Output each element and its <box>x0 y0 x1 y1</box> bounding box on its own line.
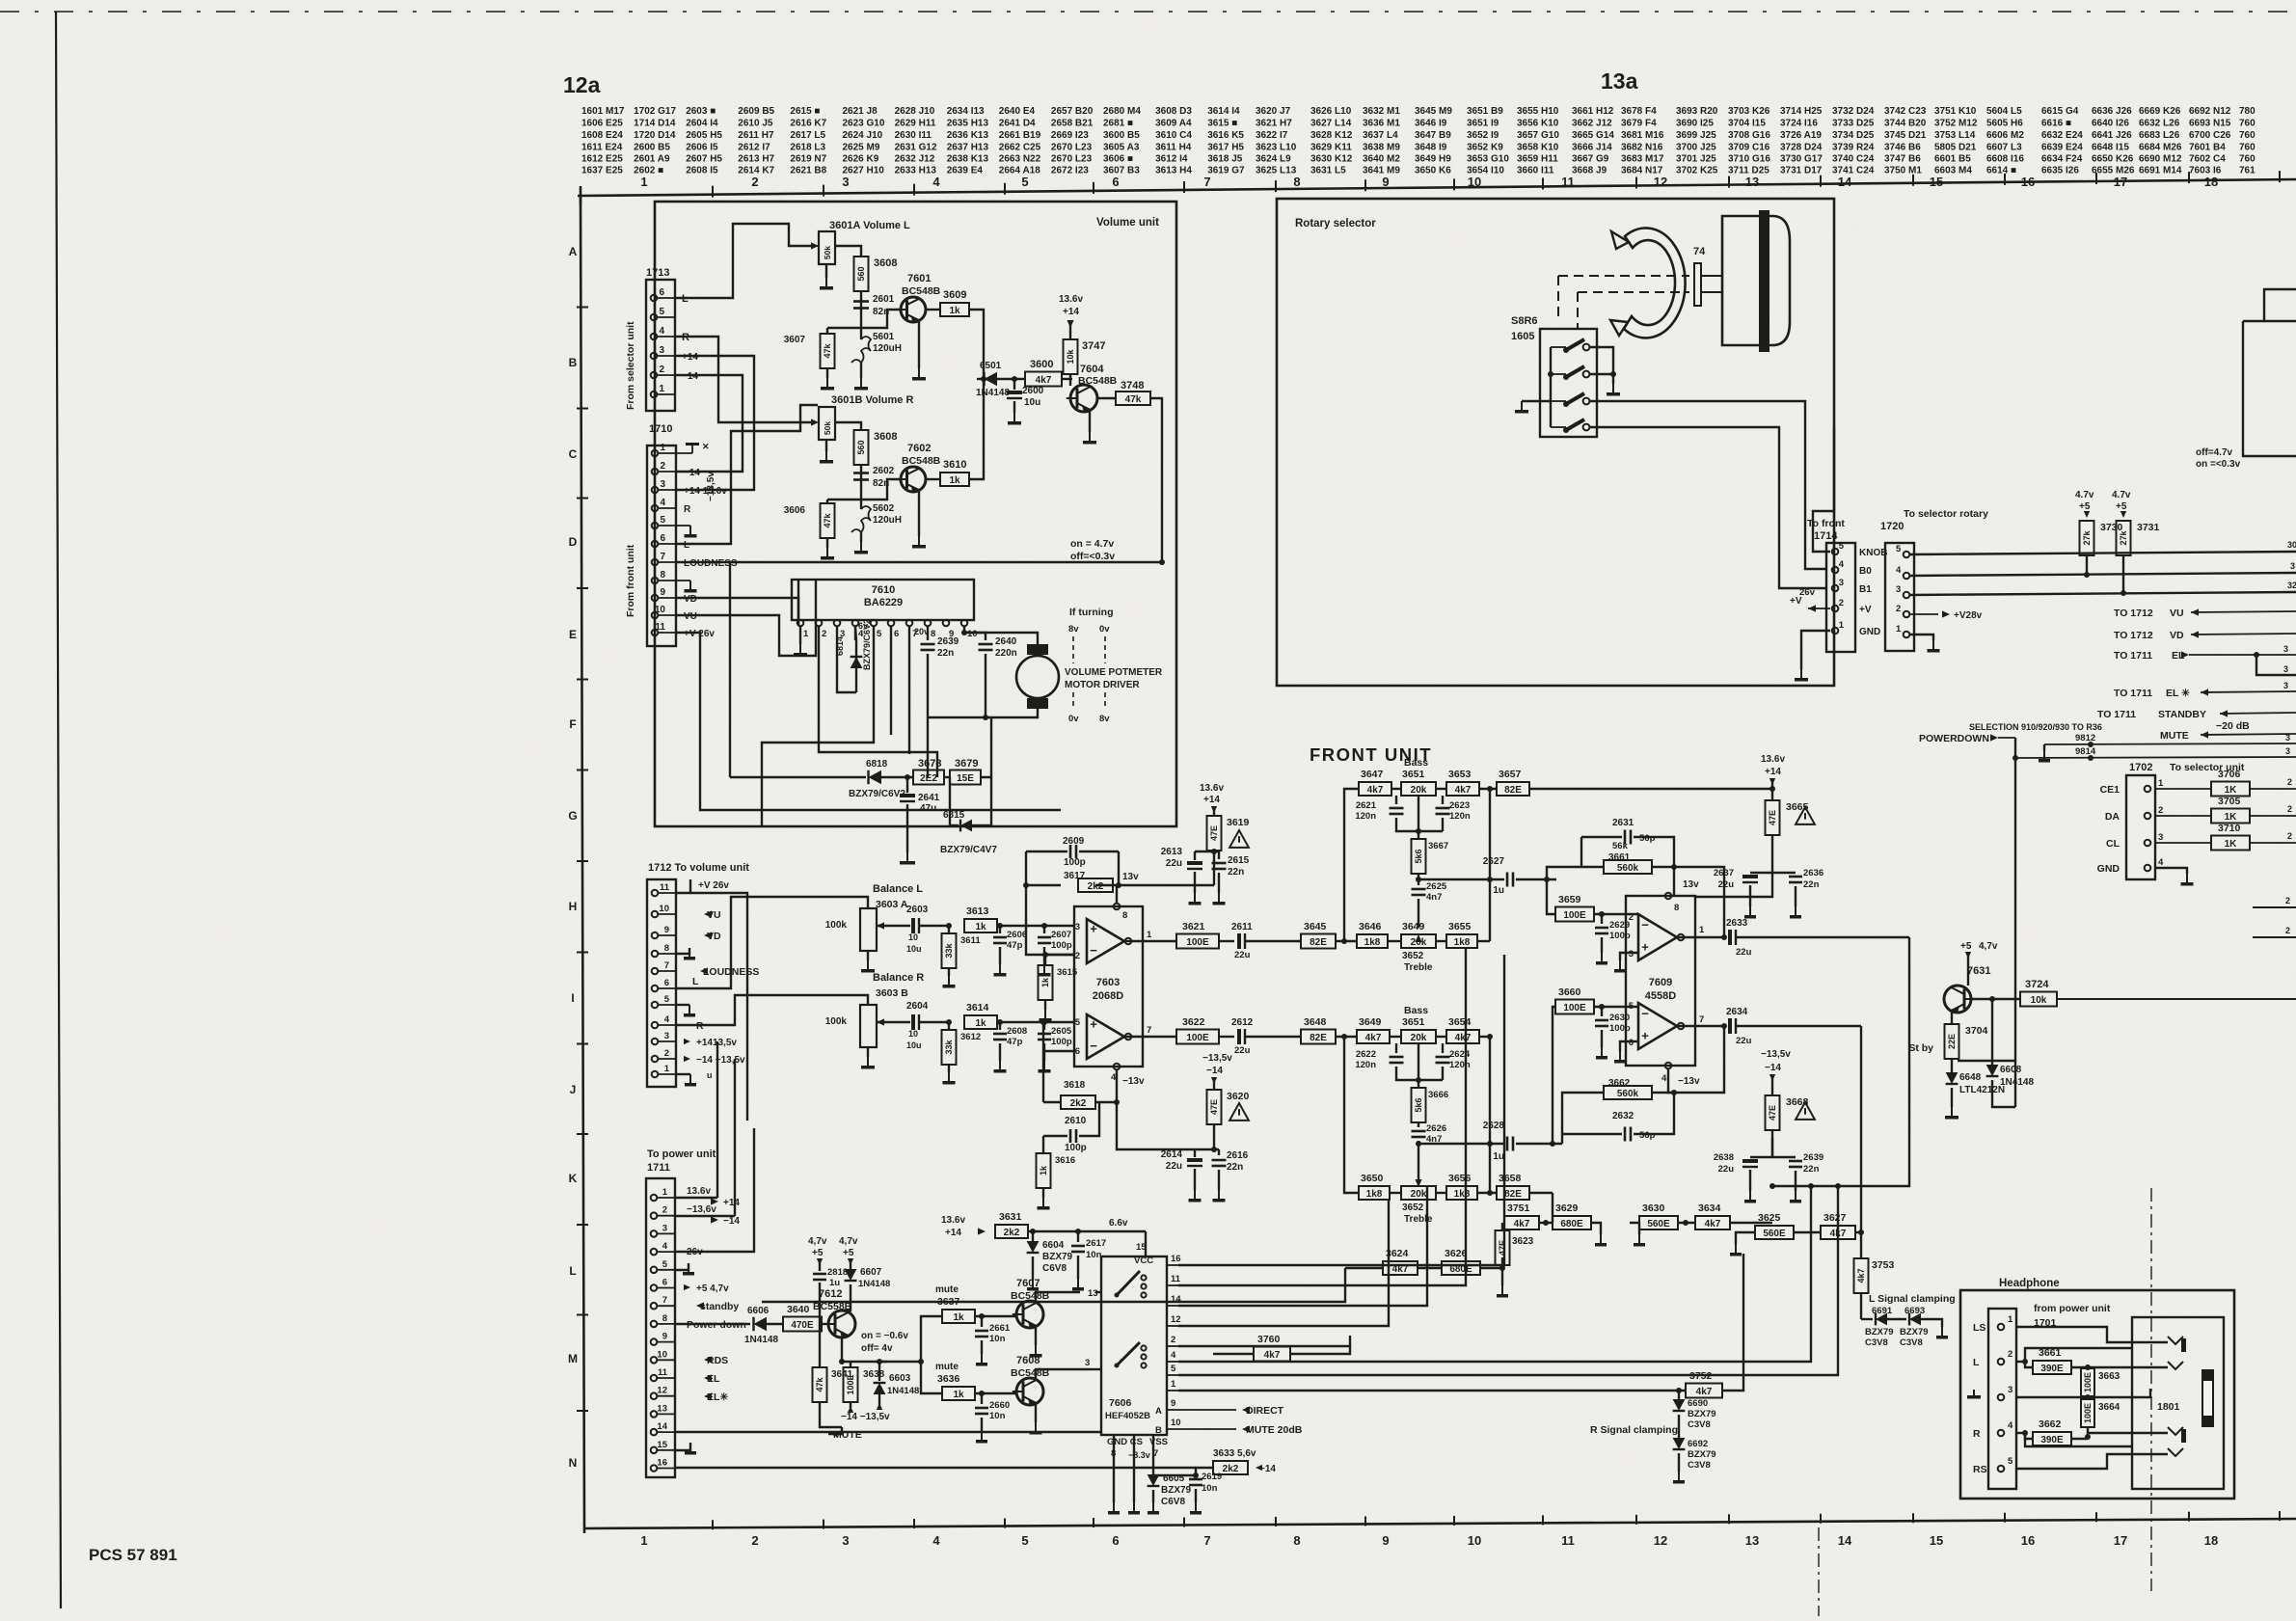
svg-text:2: 2 <box>664 1048 669 1059</box>
7608 emitter ground <box>1035 1405 1037 1422</box>
svg-text:50k: 50k <box>823 421 832 435</box>
diode 6604 BZX79 C6V8 <box>1030 1229 1036 1234</box>
svg-text:+: + <box>1090 1017 1097 1032</box>
svg-text:3637 L4: 3637 L4 <box>1363 130 1398 141</box>
svg-text:5604 L5: 5604 L5 <box>1986 106 2022 117</box>
svg-text:13v: 13v <box>1683 879 1699 890</box>
svg-text:10: 10 <box>1468 175 1481 189</box>
svg-text:6: 6 <box>1112 1533 1119 1548</box>
svg-text:10: 10 <box>657 1349 667 1360</box>
svg-text:560E: 560E <box>1647 1219 1670 1229</box>
opamp 7603 B triangle <box>1087 1014 1124 1059</box>
svg-text:1612 E25: 1612 E25 <box>581 154 623 165</box>
svg-text:13.6v: 13.6v <box>1761 754 1785 765</box>
svg-text:2601: 2601 <box>873 294 895 305</box>
svg-text:9812: 9812 <box>2075 733 2095 743</box>
svg-text:2638 K13: 2638 K13 <box>947 154 989 165</box>
svg-text:4: 4 <box>664 1014 670 1025</box>
svg-text:Treble: Treble <box>1404 1214 1433 1225</box>
svg-text:+5: +5 <box>2079 501 2091 512</box>
capacitor 2640 220n <box>964 627 986 640</box>
wire 1713 +14 down <box>675 356 754 490</box>
svg-text:6690: 6690 <box>1688 1398 1708 1409</box>
svg-text:3647: 3647 <box>1361 769 1384 780</box>
svg-text:47p: 47p <box>1007 940 1023 951</box>
svg-text:20k: 20k <box>1411 937 1427 948</box>
svg-text:1608 E24: 1608 E24 <box>581 130 623 141</box>
switch left bus <box>1550 347 1552 427</box>
svg-text:3623: 3623 <box>1512 1236 1534 1247</box>
svg-text:6601 B5: 6601 B5 <box>1934 154 1971 165</box>
svg-text:Bass: Bass <box>1404 757 1428 769</box>
svg-text:3607: 3607 <box>784 335 806 345</box>
resistor 3639 100E <box>839 1359 845 1364</box>
svg-text:2k2: 2k2 <box>1004 1228 1020 1238</box>
wire 7610 pin10 to motor <box>964 633 1038 644</box>
svg-text:1N4148: 1N4148 <box>2000 1077 2034 1088</box>
svg-text:6814: 6814 <box>835 636 845 656</box>
resistor 3657 82E <box>1479 788 1497 790</box>
svg-text:33k: 33k <box>944 943 954 959</box>
svg-text:3: 3 <box>1896 584 1901 595</box>
svg-text:BZX79: BZX79 <box>1042 1252 1073 1262</box>
svg-text:2632: 2632 <box>1612 1111 1634 1121</box>
capacitor 2617 10n <box>1075 1229 1081 1234</box>
svg-text:BZX79: BZX79 <box>1900 1327 1929 1337</box>
svg-text:2632 J12: 2632 J12 <box>895 154 935 165</box>
wire 1712 +V 26v bus <box>676 893 747 1121</box>
svg-text:6606: 6606 <box>747 1306 770 1316</box>
capacitor 2660 10n <box>979 1391 985 1396</box>
wire 1713 R to volume pot R <box>675 337 813 422</box>
svg-text:220n: 220n <box>995 648 1017 659</box>
svg-text:6636 J26: 6636 J26 <box>2092 106 2132 117</box>
svg-text:7631: 7631 <box>1967 965 1990 977</box>
svg-text:−13,5v: −13,5v <box>706 472 716 501</box>
svg-text:1: 1 <box>1699 925 1705 935</box>
resistor 3658 82E <box>1477 1192 1497 1194</box>
svg-text:3659 H11: 3659 H11 <box>1517 154 1558 165</box>
svg-text:2613 H7: 2613 H7 <box>738 154 774 165</box>
switch ground stub <box>1522 400 1551 402</box>
svg-text:EL✳: EL✳ <box>707 1391 728 1403</box>
transistor 7604 BC548B <box>1070 385 1097 412</box>
svg-text:1714 D14: 1714 D14 <box>634 119 676 129</box>
svg-text:13: 13 <box>657 1403 667 1414</box>
inductor 5602 120uH <box>860 500 862 509</box>
7607 collector to 7606 pin13 <box>1036 1292 1080 1301</box>
wire loudness pin7 long right <box>676 561 1162 563</box>
svg-text:2609 B5: 2609 B5 <box>738 106 774 117</box>
svg-text:14: 14 <box>1838 175 1852 189</box>
opamp 7609 B triangle <box>1638 1003 1677 1049</box>
svg-text:3734 D25: 3734 D25 <box>1832 130 1875 141</box>
opamp 7609 pin8 <box>1665 893 1672 900</box>
svg-text:3658 K10: 3658 K10 <box>1517 143 1559 153</box>
svg-text:2639 E4: 2639 E4 <box>947 166 984 176</box>
resistor 3647 4k7 <box>1359 782 1391 796</box>
svg-text:5: 5 <box>1896 544 1902 554</box>
svg-text:2641: 2641 <box>918 793 940 803</box>
svg-text:+V28v: +V28v <box>1954 610 1983 621</box>
wire 1710 VD into 7610 <box>676 598 798 625</box>
svg-text:2615 ■: 2615 ■ <box>790 106 820 117</box>
svg-text:13.6v: 13.6v <box>1200 783 1224 794</box>
svg-text:3650 K6: 3650 K6 <box>1415 166 1451 176</box>
svg-text:1k8: 1k8 <box>1454 1189 1471 1200</box>
svg-text:Rotary selector: Rotary selector <box>1295 218 1376 230</box>
svg-text:BZX79: BZX79 <box>1688 1449 1716 1460</box>
svg-text:2631: 2631 <box>1612 818 1634 828</box>
wire motor bottom to pin9 <box>986 709 1038 717</box>
svg-text:82E: 82E <box>1504 1189 1522 1200</box>
svg-text:3726 A19: 3726 A19 <box>1780 130 1822 141</box>
svg-text:2630 I11: 2630 I11 <box>895 130 932 141</box>
svg-text:3748: 3748 <box>1121 380 1144 392</box>
grid row tick marks <box>577 307 588 309</box>
treble R branch vertical <box>1344 1037 1359 1193</box>
ground at 1710 pin8 <box>676 580 690 581</box>
svg-text:HEF4052B: HEF4052B <box>1105 1411 1150 1421</box>
svg-text:1: 1 <box>659 384 664 394</box>
jack plug body <box>2201 1369 2214 1427</box>
svg-text:760: 760 <box>2239 154 2255 165</box>
svg-text:−13v: −13v <box>1122 1076 1145 1087</box>
svg-text:3683 M17: 3683 M17 <box>1621 154 1664 165</box>
svg-text:9: 9 <box>1382 175 1389 189</box>
svg-text:47E: 47E <box>1498 1240 1507 1256</box>
svg-text:3760: 3760 <box>1257 1334 1281 1345</box>
svg-text:18: 18 <box>2204 175 2218 189</box>
opamp 7609A output pin1 <box>1677 936 1695 938</box>
svg-text:3705: 3705 <box>2218 796 2241 807</box>
svg-text:4k7: 4k7 <box>1705 1219 1721 1229</box>
svg-text:10u: 10u <box>1024 397 1040 408</box>
svg-text:7608: 7608 <box>1016 1355 1040 1366</box>
svg-text:11: 11 <box>1561 175 1575 189</box>
svg-text:4: 4 <box>1839 559 1845 570</box>
svg-text:3617 H5: 3617 H5 <box>1207 143 1244 153</box>
svg-text:2629 H11: 2629 H11 <box>895 119 936 129</box>
svg-text:1k: 1k <box>953 1312 964 1323</box>
svg-text:20k: 20k <box>1411 785 1427 796</box>
svg-text:3640 M2: 3640 M2 <box>1363 154 1400 165</box>
svg-text:5: 5 <box>1021 1533 1028 1548</box>
svg-text:3609 A4: 3609 A4 <box>1155 119 1192 129</box>
wire 1712 L to balance pot L <box>676 897 868 988</box>
svg-text:6648: 6648 <box>1959 1072 1982 1083</box>
svg-text:3627 L14: 3627 L14 <box>1310 119 1352 129</box>
treble L chain resistor 3646 <box>1356 940 1358 942</box>
svg-text:1711: 1711 <box>647 1162 670 1174</box>
svg-text:4: 4 <box>2158 857 2164 868</box>
shaft dashed link upper <box>1558 275 1689 277</box>
svg-text:2664 A18: 2664 A18 <box>999 166 1040 176</box>
svg-text:3657: 3657 <box>1499 769 1522 780</box>
wire 7631 right vertical <box>2014 1061 2016 1107</box>
svg-text:2617: 2617 <box>1086 1238 1106 1249</box>
svg-text:7602 C4: 7602 C4 <box>2189 154 2226 165</box>
svg-text:7606: 7606 <box>1109 1397 1132 1409</box>
svg-text:4k7: 4k7 <box>1392 1264 1409 1275</box>
svg-text:6607: 6607 <box>860 1267 882 1278</box>
resistor 3615 <box>1045 954 1073 956</box>
volume motor <box>1016 656 1059 698</box>
svg-text:27k: 27k <box>2082 530 2092 546</box>
resistor 3613 1k <box>964 919 997 932</box>
svg-text:R Signal clamping: R Signal clamping <box>1590 1424 1678 1436</box>
supply caps 2638 2639 <box>1750 1156 1796 1158</box>
svg-text:2: 2 <box>1075 951 1080 961</box>
svg-text:3626 L10: 3626 L10 <box>1310 106 1352 117</box>
svg-text:3679: 3679 <box>955 758 978 770</box>
zener diode BZX79 C6V2 vertical <box>855 640 857 692</box>
svg-text:56p: 56p <box>1639 833 1656 844</box>
svg-text:3619: 3619 <box>1227 817 1250 828</box>
svg-text:−14: −14 <box>684 468 700 478</box>
input resistor 3660 100E <box>1553 1007 1555 1144</box>
svg-text:+5: +5 <box>843 1248 854 1258</box>
svg-text:47E: 47E <box>1209 825 1219 841</box>
svg-text:1601 M17: 1601 M17 <box>581 106 625 117</box>
resistor 3710 1K <box>2155 842 2211 844</box>
svg-text:4k7: 4k7 <box>1830 1229 1847 1239</box>
svg-text:3714 H25: 3714 H25 <box>1780 106 1823 117</box>
svg-text:120uH: 120uH <box>873 343 902 354</box>
svg-text:2626: 2626 <box>1426 1123 1446 1134</box>
resistor 3650 1k8 <box>1359 1186 1390 1200</box>
svg-text:MUTE 20dB: MUTE 20dB <box>1246 1424 1303 1436</box>
svg-text:6693: 6693 <box>1904 1306 1925 1316</box>
wire 1714 KNOB up to box <box>1813 511 1834 552</box>
svg-text:22u: 22u <box>1736 947 1752 958</box>
svg-text:3664: 3664 <box>2098 1402 2120 1413</box>
svg-text:2640 E4: 2640 E4 <box>999 106 1036 117</box>
svg-text:2608 I5: 2608 I5 <box>686 166 718 176</box>
bottom grid ruler line <box>584 1519 2296 1528</box>
connector 1713 pins <box>651 295 658 302</box>
svg-text:4,7v: 4,7v <box>839 1236 858 1247</box>
svg-text:22u: 22u <box>1234 1045 1251 1056</box>
zener 6815 BZX79 C4V7 <box>950 777 959 825</box>
svg-text:3653: 3653 <box>1448 769 1472 780</box>
svg-text:3660: 3660 <box>1558 986 1581 998</box>
svg-text:1N4148: 1N4148 <box>744 1335 778 1345</box>
svg-text:3615: 3615 <box>1057 967 1078 978</box>
svg-text:15: 15 <box>1930 1533 1943 1548</box>
wire 1711 pin14 right <box>675 1431 1101 1433</box>
svg-text:10: 10 <box>967 629 978 639</box>
svg-text:C: C <box>569 447 578 461</box>
svg-text:3: 3 <box>842 175 849 189</box>
fold line left <box>1818 1527 1820 1616</box>
svg-text:7612: 7612 <box>819 1288 842 1300</box>
svg-text:3724 I16: 3724 I16 <box>1780 119 1818 129</box>
svg-text:2621 B8: 2621 B8 <box>790 166 826 176</box>
wire 1714 GND ground <box>1801 631 1830 669</box>
svg-text:560k: 560k <box>1617 863 1639 874</box>
svg-text:2637 H13: 2637 H13 <box>947 143 989 153</box>
svg-text:5: 5 <box>2008 1456 2013 1467</box>
ground at 1710 pin1 <box>676 452 692 454</box>
svg-text:I: I <box>571 991 574 1005</box>
svg-text:3613: 3613 <box>966 905 989 917</box>
svg-text:6616 ■: 6616 ■ <box>2041 119 2071 129</box>
tone R node vertical <box>1489 1037 1491 1193</box>
svg-text:6: 6 <box>660 533 665 544</box>
svg-text:3746 B6: 3746 B6 <box>1884 143 1921 153</box>
R signal clamping diodes 6690 6692 <box>1676 1388 1682 1393</box>
shaft to knob wires <box>1701 275 1722 277</box>
svg-text:3660 I11: 3660 I11 <box>1517 166 1554 176</box>
svg-text:2610 J5: 2610 J5 <box>738 119 773 129</box>
svg-text:2607 H5: 2607 H5 <box>686 154 722 165</box>
right edge box top <box>2264 289 2296 321</box>
svg-text:1: 1 <box>640 1533 647 1548</box>
IC 7606 switch group 1 <box>1141 1275 1146 1280</box>
svg-text:10: 10 <box>655 605 666 615</box>
svg-text:2k2: 2k2 <box>1223 1464 1239 1474</box>
svg-text:100E: 100E <box>2083 1372 2093 1392</box>
svg-text:6632 E24: 6632 E24 <box>2041 130 2083 141</box>
transistor 7607 BC548B <box>1016 1301 1043 1328</box>
svg-text:L: L <box>1973 1357 1980 1368</box>
svg-text:2604: 2604 <box>906 1001 929 1012</box>
svg-text:3: 3 <box>2283 681 2288 690</box>
wire 7612 to mute resistors <box>879 1316 942 1362</box>
bass R chain resistor 3649b 4k7 <box>1357 1030 1390 1043</box>
transistor 7601 BC548B <box>901 297 926 322</box>
svg-text:+14: +14 <box>945 1228 961 1238</box>
svg-text:3731: 3731 <box>2137 522 2160 533</box>
svg-text:VU: VU <box>707 909 721 921</box>
svg-text:8: 8 <box>1122 910 1127 921</box>
svg-text:100p: 100p <box>1065 1143 1087 1153</box>
svg-text:3681 M16: 3681 M16 <box>1621 130 1664 141</box>
svg-text:3646 I9: 3646 I9 <box>1415 119 1447 129</box>
svg-text:8: 8 <box>664 943 669 954</box>
svg-text:−14: −14 <box>1206 1066 1223 1076</box>
svg-text:+: + <box>1641 1028 1649 1042</box>
7608 collector to pin3 node <box>1036 1369 1090 1378</box>
svg-text:2628: 2628 <box>1483 1121 1505 1131</box>
svg-text:3638: 3638 <box>863 1369 885 1380</box>
svg-text:3622 I7: 3622 I7 <box>1256 130 1288 141</box>
svg-text:3657 G10: 3657 G10 <box>1517 130 1559 141</box>
svg-text:2621: 2621 <box>1356 800 1377 811</box>
svg-text:3655 H10: 3655 H10 <box>1517 106 1559 117</box>
svg-text:2600 B5: 2600 B5 <box>634 143 670 153</box>
svg-text:9814: 9814 <box>2075 746 2096 757</box>
svg-text:−: − <box>1090 943 1097 958</box>
svg-text:4558D: 4558D <box>1645 990 1676 1002</box>
svg-text:10n: 10n <box>989 1411 1006 1421</box>
svg-text:BZX79/C6V2: BZX79/C6V2 <box>862 619 872 670</box>
svg-text:3631 L5: 3631 L5 <box>1310 166 1346 176</box>
svg-text:3606: 3606 <box>784 505 806 516</box>
svg-text:20k: 20k <box>1411 1033 1427 1043</box>
svg-text:22u: 22u <box>1166 858 1182 869</box>
svg-text:2: 2 <box>2287 831 2292 841</box>
svg-text:3678 F4: 3678 F4 <box>1621 106 1657 117</box>
svg-text:3624 L9: 3624 L9 <box>1256 154 1291 165</box>
svg-text:+5 4,7v: +5 4,7v <box>696 1283 729 1294</box>
wire 7606 pin2 up right <box>1178 1336 1350 1346</box>
svg-text:680E: 680E <box>1449 1264 1472 1275</box>
grid column numbers bottom <box>640 1533 2218 1548</box>
svg-text:2672 I23: 2672 I23 <box>1051 166 1089 176</box>
svg-text:4k7: 4k7 <box>1367 785 1384 796</box>
svg-text:3625 L13: 3625 L13 <box>1256 166 1297 176</box>
svg-text:7601 B4: 7601 B4 <box>2189 143 2226 153</box>
svg-text:2681 ■: 2681 ■ <box>1103 119 1133 129</box>
svg-text:1637 E25: 1637 E25 <box>581 166 623 176</box>
svg-text:760: 760 <box>2239 143 2255 153</box>
input resistor 3659 100E <box>1547 879 1555 914</box>
svg-text:6608 I16: 6608 I16 <box>1986 154 2024 165</box>
svg-text:B1: B1 <box>1859 584 1872 595</box>
svg-text:2624: 2624 <box>1449 1049 1471 1060</box>
resistor 3640 470E <box>783 1317 822 1332</box>
svg-text:4k7: 4k7 <box>1365 1033 1382 1043</box>
wire 3645 to tone L <box>1301 934 1336 949</box>
svg-text:MUTE: MUTE <box>2160 730 2189 742</box>
capacitor 2603 10u <box>911 918 915 933</box>
svg-text:3702 K25: 3702 K25 <box>1676 166 1718 176</box>
1702 GND pin ground <box>2155 868 2187 874</box>
svg-text:BZX79: BZX79 <box>1865 1327 1894 1337</box>
resistor 3608 <box>854 257 869 291</box>
svg-text:3649: 3649 <box>1359 1016 1382 1028</box>
svg-text:120uH: 120uH <box>873 515 902 526</box>
svg-text:3: 3 <box>2158 832 2163 843</box>
svg-text:3724: 3724 <box>2025 979 2049 990</box>
svg-text:3625: 3625 <box>1758 1212 1781 1224</box>
svg-text:7610: 7610 <box>872 584 895 596</box>
svg-text:3744 B20: 3744 B20 <box>1884 119 1927 129</box>
svg-text:3699 J25: 3699 J25 <box>1676 130 1716 141</box>
svg-text:C3V8: C3V8 <box>1688 1419 1711 1430</box>
tone L node vertical <box>1489 789 1491 941</box>
svg-text:1: 1 <box>664 1064 670 1074</box>
svg-text:3633 5,6v: 3633 5,6v <box>1213 1448 1256 1459</box>
svg-text:1: 1 <box>660 443 665 453</box>
svg-text:D: D <box>569 535 578 549</box>
svg-text:1u: 1u <box>1493 885 1504 896</box>
opamp 7603 pin4 <box>1114 1064 1121 1070</box>
svg-text:15: 15 <box>1930 175 1943 189</box>
svg-text:3606 ■: 3606 ■ <box>1103 154 1133 165</box>
svg-text:11: 11 <box>658 1367 668 1378</box>
svg-text:3651: 3651 <box>1402 1016 1425 1028</box>
svg-text:10n: 10n <box>1086 1250 1102 1260</box>
svg-text:3709 C16: 3709 C16 <box>1728 143 1770 153</box>
switch S8R6 1605 box <box>1540 329 1597 437</box>
svg-text:2619: 2619 <box>1202 1472 1222 1482</box>
wire 1710 VU into 7610 <box>676 615 816 656</box>
svg-text:3652: 3652 <box>1402 951 1424 961</box>
svg-text:22n: 22n <box>937 648 954 659</box>
resistor 3608 lower <box>854 430 869 465</box>
svg-text:6640 I26: 6640 I26 <box>2092 119 2129 129</box>
svg-text:3740 C24: 3740 C24 <box>1832 154 1875 165</box>
connector 1710 <box>647 446 676 646</box>
svg-text:3745 D21: 3745 D21 <box>1884 130 1927 141</box>
svg-text:L: L <box>569 1264 576 1278</box>
resistor 3668 47E <box>1766 1095 1780 1130</box>
svg-text:LS: LS <box>1973 1322 1985 1334</box>
svg-text:5: 5 <box>659 307 664 317</box>
